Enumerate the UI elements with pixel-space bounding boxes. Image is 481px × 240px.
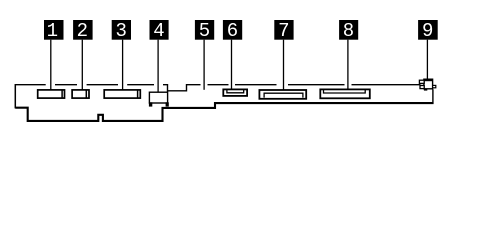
svg-text:8: 8: [343, 20, 354, 42]
connector 1: [38, 90, 65, 98]
connector 2: [72, 90, 89, 98]
leader line 9: [426, 40, 428, 79]
leader line 4: [157, 40, 159, 92]
board left edge: [14, 84, 16, 108]
callout 6: [223, 20, 242, 42]
board top edge: [15, 85, 420, 91]
callout 5: [195, 20, 214, 42]
connector 6: [223, 89, 247, 96]
leader line 6: [231, 40, 233, 90]
leader line 8: [347, 40, 349, 90]
connector 8: [320, 89, 370, 98]
svg-text:2: 2: [77, 20, 88, 42]
callout 1: [44, 20, 64, 42]
board right edge: [432, 89, 434, 102]
svg-text:1: 1: [47, 20, 58, 42]
leader line 5: [203, 40, 205, 90]
callout 3: [112, 20, 131, 42]
callout 2: [73, 20, 93, 42]
svg-text:5: 5: [199, 20, 210, 42]
svg-text:9: 9: [422, 20, 433, 42]
connector 3: [104, 90, 140, 98]
svg-text:3: 3: [115, 20, 126, 42]
leader line 7: [283, 40, 285, 91]
callout 7: [274, 20, 293, 42]
leader line 2: [81, 40, 83, 90]
svg-text:7: 7: [278, 20, 289, 42]
callout 4: [150, 20, 169, 42]
svg-text:6: 6: [227, 20, 238, 42]
leader line 3: [122, 40, 124, 90]
svg-text:4: 4: [153, 20, 164, 42]
connector 9: [419, 79, 435, 91]
callout 9: [418, 20, 438, 42]
leader line 1: [50, 40, 52, 90]
connector 4: [149, 92, 169, 106]
callout 8: [339, 20, 358, 42]
connector 7: [259, 90, 306, 99]
board bottom edge: [15, 103, 433, 121]
